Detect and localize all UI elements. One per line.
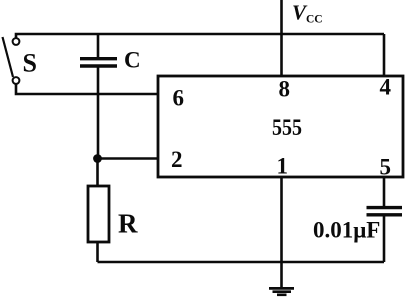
resistor R: body xyxy=(88,186,109,242)
svg-text:C: C xyxy=(124,48,141,73)
wire: pin 1 down through bottom rail to ground xyxy=(280,177,283,288)
capacitor C2 0.01uF: top lead from pin 5 xyxy=(383,177,386,206)
wire: pin 4 drop from top rail into IC xyxy=(383,34,386,76)
svg-text:6: 6 xyxy=(173,86,185,111)
resistor R: top lead xyxy=(96,159,99,187)
wire: switch bottom to pin 6 xyxy=(16,84,158,94)
switch S: top contact circle xyxy=(13,38,20,45)
svg-text:5: 5 xyxy=(380,155,392,180)
capacitor C: top lead xyxy=(97,34,100,57)
wire: bottom rail xyxy=(98,261,385,264)
svg-text:R: R xyxy=(118,209,138,239)
svg-text:CC: CC xyxy=(306,14,323,26)
svg-text:S: S xyxy=(23,49,37,78)
resistor R: bottom lead xyxy=(96,242,99,262)
node A: junction dot at pin2/C/R xyxy=(93,154,102,163)
capacitor C2 0.01uF: bottom lead xyxy=(383,216,386,262)
capacitor C: bottom lead down to node xyxy=(97,67,100,159)
svg-text:0.01μF: 0.01μF xyxy=(313,218,380,243)
svg-text:555: 555 xyxy=(272,115,302,140)
svg-text:8: 8 xyxy=(279,77,291,102)
svg-text:4: 4 xyxy=(380,75,392,100)
capacitor C2 0.01uF: plates xyxy=(367,208,403,215)
wire: pin 2 from node xyxy=(98,157,159,160)
ground xyxy=(269,287,294,290)
capacitor C: plates xyxy=(80,59,117,66)
net Vcc: supply line down to pin 8 xyxy=(280,0,283,76)
switch S: bottom contact circle xyxy=(13,77,20,84)
op IC U1: 555 body xyxy=(158,76,403,177)
svg-text:1: 1 xyxy=(277,154,289,179)
wire: top rail from switch to pin 4 corner xyxy=(16,34,384,38)
svg-text:2: 2 xyxy=(171,147,183,172)
switch S: lever xyxy=(3,37,14,77)
